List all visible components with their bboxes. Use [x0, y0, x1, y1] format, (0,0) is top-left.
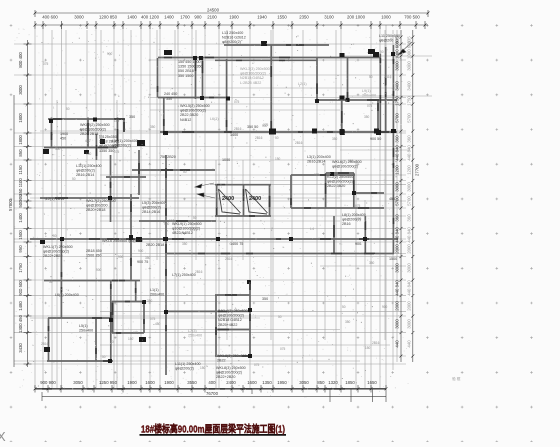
svg-text:1200: 1200: [395, 165, 400, 175]
svg-text:1480: 1480: [18, 301, 23, 311]
svg-text:075: 075: [263, 123, 269, 127]
svg-text:1000: 1000: [381, 14, 391, 19]
svg-text:φ8@200(2): φ8@200(2): [76, 169, 95, 173]
svg-text:2000: 2000: [406, 301, 411, 311]
svg-text:φ8@200: φ8@200: [379, 39, 393, 43]
svg-text:φ8@100/200: φ8@100/200: [86, 204, 108, 208]
svg-text:2B20 2B18: 2B20 2B18: [146, 243, 164, 247]
svg-text:075: 075: [190, 228, 196, 232]
svg-text:350: 350: [147, 299, 153, 303]
svg-text:440 840: 440 840: [406, 280, 411, 296]
svg-text:440 840: 440 840: [395, 280, 400, 296]
svg-text:φ8@100/200(2): φ8@100/200(2): [240, 72, 266, 76]
svg-text:WKL6(2) 250x500: WKL6(2) 250x500: [332, 160, 362, 164]
svg-text:700 500: 700 500: [404, 14, 420, 19]
stair panel 1: [219, 189, 241, 214]
scan speckle dark: [32, 36, 401, 387]
svg-text:350: 350: [348, 159, 354, 163]
svg-text:L1(1): L1(1): [150, 288, 159, 292]
svg-text:WKL6 250x500 φ8@200: WKL6 250x500 φ8@200: [102, 239, 143, 243]
svg-text:3400: 3400: [406, 81, 411, 91]
svg-text:3000: 3000: [406, 319, 411, 329]
svg-text:440 840: 440 840: [406, 145, 411, 161]
beam lines: [30, 45, 398, 389]
svg-text:L3(1) 200x400: L3(1) 200x400: [307, 155, 331, 159]
svg-text:350: 350: [182, 242, 188, 246]
svg-text:3000: 3000: [406, 263, 411, 273]
svg-text:WKL2(2) 250x500: WKL2(2) 250x500: [80, 123, 110, 127]
svg-text:WKL3(3) 250x500: WKL3(3) 250x500: [240, 67, 270, 71]
svg-text:1400: 1400: [230, 133, 238, 137]
svg-text:2B25+4B22: 2B25+4B22: [218, 323, 237, 327]
svg-text:L2(1): L2(1): [298, 82, 307, 86]
svg-text:150: 150: [365, 346, 371, 350]
svg-text:50: 50: [275, 136, 279, 140]
svg-text:L13 250x400: L13 250x400: [222, 31, 243, 35]
svg-text:X: X: [0, 429, 6, 442]
svg-text:075: 075: [234, 100, 240, 104]
svg-text:350: 350: [166, 97, 172, 101]
svg-text:3550: 3550: [187, 380, 197, 385]
svg-text:φ8@100/200(2): φ8@100/200(2): [327, 180, 353, 184]
svg-text:50: 50: [72, 177, 76, 181]
svg-text:24500: 24500: [207, 8, 220, 13]
svg-text:2B16: 2B16: [255, 136, 263, 140]
svg-text:5700: 5700: [406, 113, 411, 123]
svg-text:1400: 1400: [127, 14, 137, 19]
svg-text:N2B16 G2B12: N2B16 G2B12: [222, 36, 246, 40]
svg-text:200x400: 200x400: [150, 293, 164, 297]
svg-text:φ8@200(2): φ8@200(2): [222, 40, 241, 44]
svg-text:450: 450: [356, 217, 362, 221]
svg-text:440 840: 440 840: [395, 227, 400, 243]
svg-text:2B16: 2B16: [372, 341, 380, 345]
svg-text:1300 450: 1300 450: [18, 314, 23, 333]
svg-text:400 600: 400 600: [42, 14, 58, 19]
svg-text:2B16;2B14: 2B16;2B14: [307, 160, 325, 164]
svg-text:3400: 3400: [395, 81, 400, 91]
svg-text:2400: 2400: [226, 380, 236, 385]
svg-text:450 1100: 450 1100: [18, 178, 23, 196]
vertical grid axes: [35, 25, 397, 388]
svg-text:350: 350: [364, 115, 370, 119]
svg-text:350: 350: [150, 125, 156, 129]
svg-text:440 840: 440 840: [395, 145, 400, 161]
svg-text:L7(3): L7(3): [188, 329, 197, 333]
svg-text:850: 850: [18, 149, 23, 157]
svg-text:3050: 3050: [73, 380, 83, 385]
svg-text:N2B18 G4B12: N2B18 G4B12: [218, 318, 242, 322]
svg-text:900: 900: [96, 268, 102, 272]
svg-text:L:2B25 4B22: L:2B25 4B22: [240, 81, 261, 85]
svg-text:L9(1): L9(1): [362, 89, 371, 93]
svg-text:360: 360: [406, 214, 411, 222]
svg-text:075: 075: [355, 204, 361, 208]
svg-text:φ10@100/200(2): φ10@100/200(2): [172, 227, 200, 231]
svg-text:3000: 3000: [395, 182, 400, 192]
svg-text:50: 50: [193, 216, 197, 220]
svg-text:5700: 5700: [395, 113, 400, 123]
svg-text:3000: 3000: [395, 319, 400, 329]
svg-text:250x400: 250x400: [188, 334, 202, 338]
svg-text:L6(1): L6(1): [210, 117, 219, 121]
svg-text:1000: 1000: [222, 158, 230, 162]
svg-text:L2(1) 2B16: L2(1) 2B16: [46, 197, 64, 201]
svg-text:900 75: 900 75: [137, 260, 148, 264]
svg-text:φ8@100/200(2): φ8@100/200(2): [180, 109, 206, 113]
section arrows: [195, 183, 215, 198]
svg-text:18#楼标高90.00m屋面层梁平法施工图(1): 18#楼标高90.00m屋面层梁平法施工图(1): [141, 422, 285, 435]
svg-text:900 900: 900 900: [40, 380, 56, 385]
svg-text:L11(1) 250x400: L11(1) 250x400: [175, 362, 201, 366]
svg-text:850: 850: [317, 380, 325, 385]
svg-text:450: 450: [164, 222, 170, 226]
svg-text:N2B18;G4B12: N2B18;G4B12: [240, 76, 264, 80]
svg-text:φ8@200(2): φ8@200(2): [142, 206, 161, 210]
svg-text:2B22+2B20: 2B22+2B20: [216, 375, 235, 379]
svg-text:900 500: 900 500: [18, 280, 23, 296]
svg-text:350: 350: [262, 297, 268, 301]
svg-text:2B20+2B18: 2B20+2B18: [86, 208, 105, 212]
svg-text:900: 900: [138, 249, 144, 253]
svg-text:2000: 2000: [395, 244, 400, 254]
svg-text:350: 350: [369, 261, 375, 265]
svg-text:1350 1500 350: 1350 1500 350: [178, 65, 203, 69]
svg-text:1400: 1400: [18, 213, 23, 223]
horizontal grid axes: [14, 44, 432, 364]
svg-text:075: 075: [280, 347, 286, 351]
svg-text:3000: 3000: [395, 263, 400, 273]
svg-text:1750: 1750: [395, 96, 400, 106]
svg-text:WKL5(2) 250x500: WKL5(2) 250x500: [180, 104, 210, 108]
svg-text:1600: 1600: [145, 380, 155, 385]
svg-text:3430: 3430: [18, 343, 23, 353]
svg-text:1500: 1500: [18, 230, 23, 240]
svg-text:440 840: 440 840: [406, 227, 411, 243]
svg-text:2B16: 2B16: [342, 222, 351, 226]
svg-text:2B22;3B20: 2B22;3B20: [327, 184, 345, 188]
vertical dimension text: [8, 36, 420, 353]
svg-text:WKL7(2) 250x500: WKL7(2) 250x500: [86, 199, 116, 203]
svg-text:900 50: 900 50: [370, 137, 381, 141]
svg-text:L8(1) 200x400: L8(1) 200x400: [342, 213, 366, 217]
svg-text:750 2B20: 750 2B20: [160, 155, 176, 159]
svg-text:50: 50: [380, 50, 384, 54]
svg-text:L11(1) 250x400: L11(1) 250x400: [76, 164, 102, 168]
svg-text:2B18 450: 2B18 450: [86, 249, 102, 253]
svg-text:L4: L4: [310, 227, 314, 231]
beam dark accents: [42, 45, 393, 389]
svg-text:360: 360: [395, 135, 400, 143]
svg-text:1320: 1320: [328, 380, 338, 385]
svg-text:400: 400: [208, 380, 216, 385]
svg-text:L11 250x500: L11 250x500: [379, 34, 400, 38]
svg-text:1750: 1750: [406, 96, 411, 106]
svg-text:3050: 3050: [299, 380, 309, 385]
svg-text:450: 450: [60, 137, 66, 141]
svg-text:240 450: 240 450: [164, 92, 177, 96]
svg-text:1200: 1200: [406, 165, 411, 175]
svg-text:1150: 1150: [18, 165, 23, 175]
svg-text:2000: 2000: [406, 244, 411, 254]
svg-text:075: 075: [367, 104, 373, 108]
svg-text:1550: 1550: [277, 14, 287, 19]
scan speckle: [15, 28, 412, 398]
svg-text:800 400: 800 400: [18, 52, 23, 68]
svg-text:1950: 1950: [277, 380, 287, 385]
svg-text:050 2B18: 050 2B18: [178, 69, 194, 73]
svg-text:2B18 2B16: 2B18 2B16: [99, 140, 117, 144]
svg-text:1900: 1900: [229, 14, 239, 19]
svg-text:3000: 3000: [74, 14, 84, 19]
svg-text:1500: 1500: [389, 257, 397, 261]
svg-text:50: 50: [66, 107, 70, 111]
svg-text:50: 50: [102, 355, 106, 359]
svg-text:1500 350: 1500 350: [86, 254, 101, 258]
svg-text:加125x350: 加125x350: [99, 134, 117, 139]
svg-text:450: 450: [155, 322, 161, 326]
svg-text:WKL9(1) 250x500: WKL9(1) 250x500: [172, 222, 202, 226]
svg-text:27700: 27700: [415, 163, 420, 176]
svg-text:50: 50: [183, 170, 187, 174]
svg-text:900: 900: [355, 242, 361, 246]
svg-text:KL2(2) 250x500: KL2(2) 250x500: [327, 175, 353, 179]
svg-text:2B16;2B14: 2B16;2B14: [76, 173, 94, 177]
svg-text:2B22: 2B22: [217, 359, 226, 363]
svg-text:200x400: 200x400: [362, 94, 376, 98]
svg-text:WKL1(7) 250x500: WKL1(7) 250x500: [43, 245, 73, 249]
svg-text:验 框: 验 框: [452, 376, 461, 381]
dimension lines and ticks: [14, 10, 430, 402]
svg-text:1700: 1700: [180, 14, 190, 19]
svg-text:200 1000: 200 1000: [347, 14, 366, 19]
svg-text:1000 600: 1000 600: [395, 40, 400, 59]
svg-text:φ8@100/200(2): φ8@100/200(2): [332, 165, 358, 169]
svg-text:1400: 1400: [164, 14, 174, 19]
annotation text blocks: [43, 31, 461, 381]
svg-text:2B22;3B20: 2B22;3B20: [180, 113, 198, 117]
svg-text:50: 50: [369, 75, 373, 79]
svg-text:1250 950: 1250 950: [99, 380, 118, 385]
svg-text:1940: 1940: [257, 14, 267, 19]
svg-text:150: 150: [128, 337, 134, 341]
horizontal dimension text: [40, 8, 420, 396]
svg-text:3000: 3000: [406, 61, 411, 71]
svg-text:WKL4(3) 250x500: WKL4(3) 250x500: [218, 309, 248, 313]
svg-text:2B16: 2B16: [225, 257, 233, 261]
svg-text:250x400: 250x400: [79, 329, 93, 333]
svg-text:360: 360: [395, 214, 400, 222]
svg-text:500: 500: [18, 200, 23, 208]
svg-text:1000 600: 1000 600: [406, 40, 411, 59]
svg-text:075: 075: [133, 331, 139, 335]
svg-text:L6(1) 200x400: L6(1) 200x400: [55, 293, 79, 297]
svg-text:2B16: 2B16: [41, 342, 49, 346]
svg-text:2B16: 2B16: [234, 127, 242, 131]
svg-text:WKL8(3) 250x500: WKL8(3) 250x500: [217, 354, 247, 358]
svg-text:φ8@100/200(2): φ8@100/200(2): [43, 250, 69, 254]
svg-text:1350: 1350: [262, 380, 272, 385]
svg-text:50: 50: [278, 315, 282, 319]
svg-text:150: 150: [200, 366, 206, 370]
svg-text:50: 50: [342, 305, 346, 309]
svg-text:440: 440: [406, 340, 411, 348]
svg-text:440: 440: [395, 340, 400, 348]
svg-text:450: 450: [389, 197, 395, 201]
svg-text:N4B12: N4B12: [180, 118, 191, 122]
svg-text:φ8@200(2): φ8@200(2): [99, 144, 118, 148]
svg-text:φ8@200(2): φ8@200(2): [175, 367, 194, 371]
svg-text:1800: 1800: [18, 113, 23, 123]
svg-text:2000: 2000: [395, 301, 400, 311]
svg-text:075: 075: [43, 62, 49, 66]
svg-text:76700: 76700: [206, 391, 219, 396]
svg-text:WKL8(3) 250x500: WKL8(3) 250x500: [216, 366, 246, 370]
svg-text:3000: 3000: [395, 61, 400, 71]
svg-text:5700: 5700: [395, 196, 400, 206]
svg-text:1900: 1900: [60, 132, 68, 136]
svg-text:2350: 2350: [299, 14, 309, 19]
svg-text:075: 075: [114, 150, 120, 154]
svg-text:350 50: 350 50: [247, 125, 258, 129]
svg-text:L7(1) 250x400: L7(1) 250x400: [172, 273, 196, 277]
svg-text:150: 150: [86, 152, 92, 156]
svg-text:3000: 3000: [18, 85, 23, 95]
svg-text:φ8@100/200(2): φ8@100/200(2): [216, 371, 242, 375]
svg-text:2B22+2B20: 2B22+2B20: [43, 254, 62, 258]
top right leader: [398, 42, 412, 55]
svg-text:2B20 2B18: 2B20 2B18: [80, 132, 98, 136]
svg-text:50: 50: [49, 280, 53, 284]
svg-text:1400 75: 1400 75: [230, 242, 243, 246]
svg-text:2B16: 2B16: [195, 270, 203, 274]
svg-text:1650: 1650: [367, 380, 377, 385]
svg-text:2400: 2400: [222, 196, 234, 202]
svg-text:950: 950: [18, 245, 23, 253]
svg-text:2100: 2100: [207, 14, 217, 19]
svg-text:3000: 3000: [406, 182, 411, 192]
svg-text:φ8@100/200(2): φ8@100/200(2): [80, 128, 106, 132]
svg-text:φ8@100/200(2): φ8@100/200(2): [218, 314, 244, 318]
svg-text:075: 075: [314, 173, 320, 177]
svg-text:350: 350: [345, 320, 351, 324]
svg-text:1800: 1800: [18, 135, 23, 145]
svg-text:900: 900: [118, 255, 124, 259]
svg-text:1850: 1850: [345, 380, 355, 385]
column nodes: [40, 41, 396, 363]
svg-text:900: 900: [382, 305, 388, 309]
svg-text:900: 900: [194, 14, 202, 19]
svg-text:3100: 3100: [324, 14, 334, 19]
svg-text:075: 075: [150, 317, 156, 321]
svg-text:L5(1): L5(1): [79, 324, 88, 328]
svg-text:1200 850: 1200 850: [99, 14, 118, 19]
svg-text:2B16: 2B16: [295, 141, 303, 145]
svg-text:2B14;2B16: 2B14;2B16: [142, 210, 160, 214]
svg-text:150: 150: [275, 157, 281, 161]
svg-text:50: 50: [53, 234, 57, 238]
svg-text:360: 360: [406, 135, 411, 143]
stair panel 2: [246, 189, 268, 214]
svg-text:L5(3) 200x400: L5(3) 200x400: [142, 201, 166, 205]
scattered small numbers: [41, 50, 392, 370]
title underline: [140, 434, 287, 436]
svg-text:350 1500: 350 1500: [178, 74, 193, 78]
svg-text:350: 350: [332, 137, 338, 141]
svg-text:400 1200: 400 1200: [141, 14, 160, 19]
svg-text:1750: 1750: [18, 263, 23, 273]
svg-text:150 450 1500: 150 450 1500: [178, 60, 201, 64]
svg-text:2400: 2400: [249, 196, 261, 202]
svg-text:1350 350: 1350 350: [99, 149, 114, 153]
svg-text:350: 350: [129, 115, 135, 119]
svg-text:57800: 57800: [8, 198, 13, 211]
svg-text:350: 350: [145, 256, 151, 260]
svg-text:5700: 5700: [406, 196, 411, 206]
svg-text:075: 075: [254, 363, 260, 367]
svg-text:450: 450: [85, 139, 91, 143]
